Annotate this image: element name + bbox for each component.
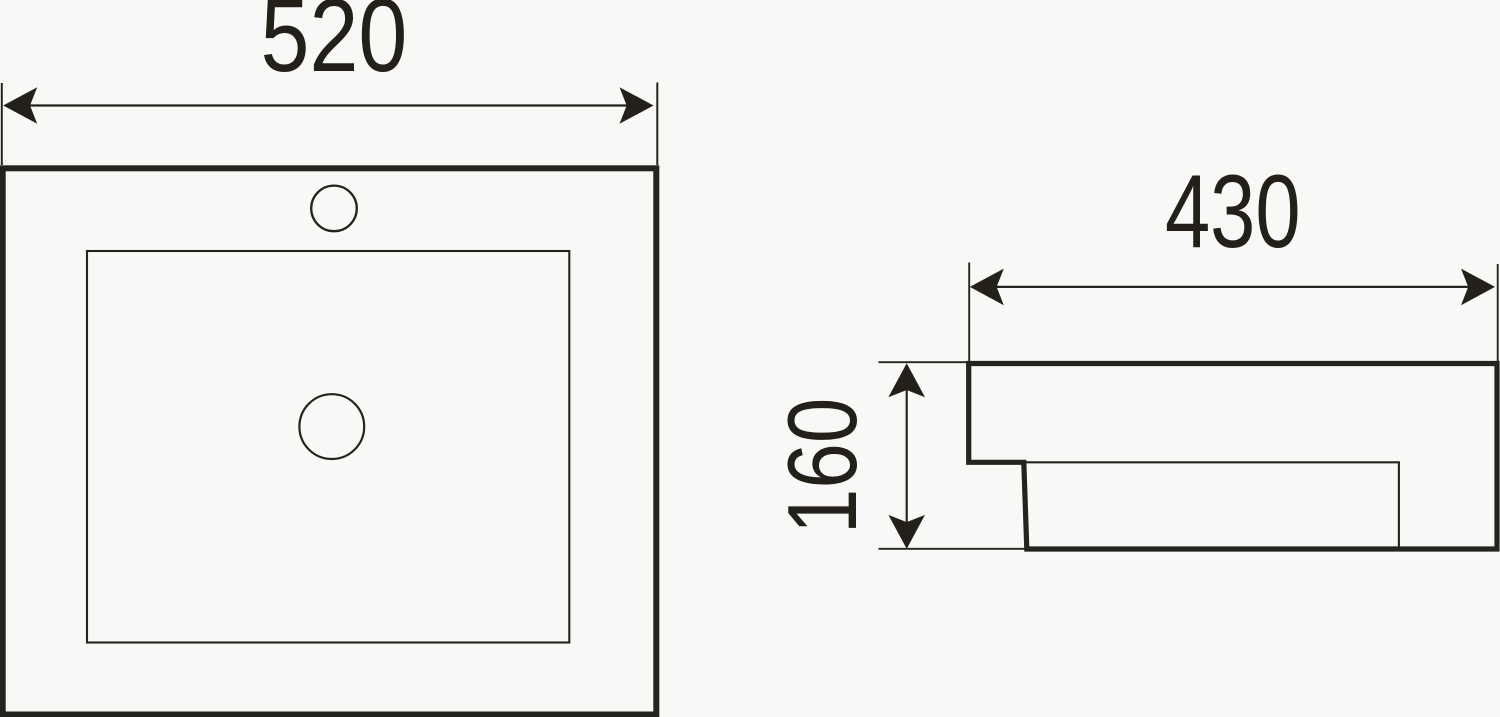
- svg-text:520: 520: [261, 0, 408, 94]
- svg-text:160: 160: [768, 398, 878, 534]
- svg-text:430: 430: [1165, 153, 1301, 270]
